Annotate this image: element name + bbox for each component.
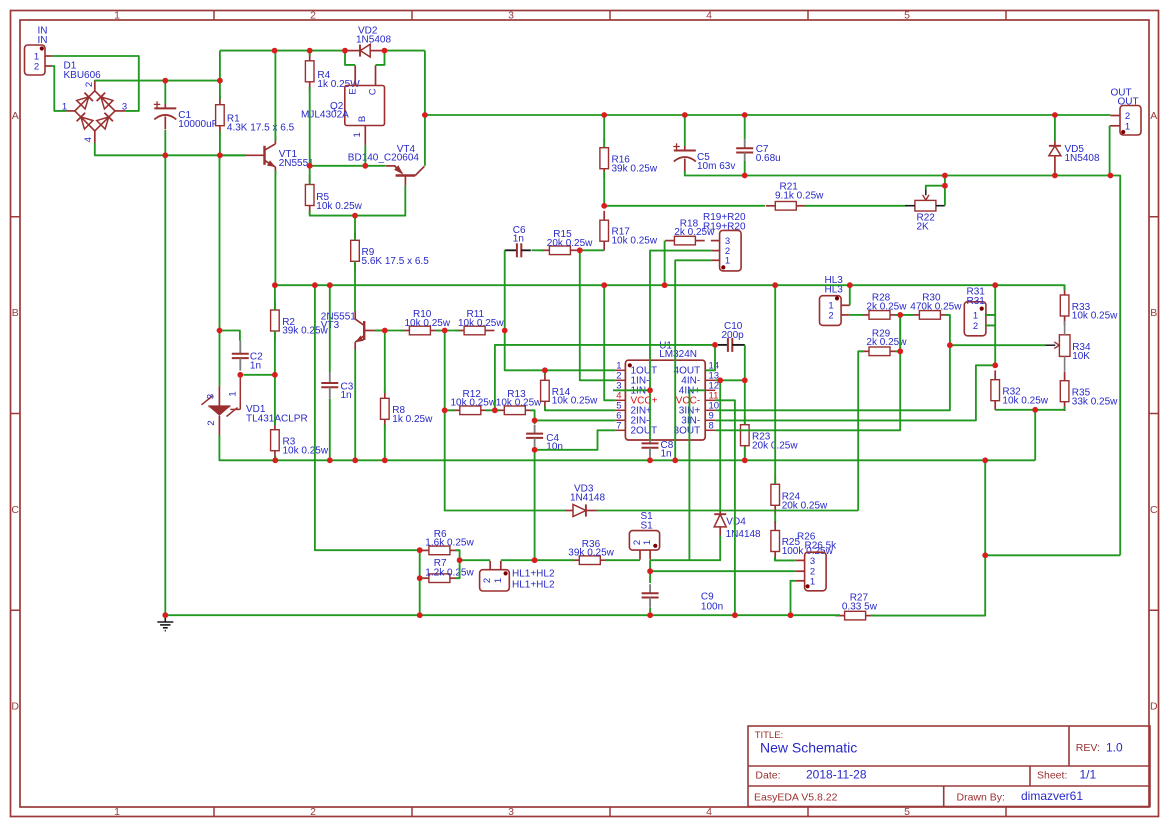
resistor R28 xyxy=(860,311,900,320)
svg-text:BD140_C20604: BD140_C20604 xyxy=(348,152,420,163)
wire xyxy=(445,331,455,411)
junction at 165.3,80.6 xyxy=(162,78,168,84)
svg-text:1k 0.25W: 1k 0.25W xyxy=(317,79,360,90)
wire xyxy=(664,241,666,286)
wire xyxy=(744,447,746,461)
wire xyxy=(460,559,491,561)
wire xyxy=(1064,285,1066,290)
wire xyxy=(858,351,864,510)
wire xyxy=(95,80,220,82)
junction at 329.8,285.2 xyxy=(327,282,333,288)
junction at 1054.9,115 xyxy=(1052,112,1058,118)
wire xyxy=(650,251,711,441)
svg-text:2: 2 xyxy=(84,82,95,87)
connector P2 OUT xyxy=(1110,106,1141,136)
resistor R10 xyxy=(400,326,440,335)
junction at 274.9,285.2 xyxy=(272,282,278,288)
wire xyxy=(895,350,900,352)
junction at 424.9,115 xyxy=(422,112,428,118)
diode D1c xyxy=(77,113,93,129)
svg-text:1.0: 1.0 xyxy=(1106,741,1123,755)
wire xyxy=(495,345,715,410)
junction at 309.7,165.8 xyxy=(307,163,313,169)
resistor R35 xyxy=(1060,371,1069,411)
svg-text:4.3K 17.5 x 6.5: 4.3K 17.5 x 6.5 xyxy=(227,123,295,134)
junction at 345,50.6 xyxy=(342,48,348,54)
junction at 219.5,330.5 xyxy=(217,328,223,334)
resistor R1 xyxy=(216,95,225,135)
junction at 604.2,285.2 xyxy=(601,282,607,288)
svg-text:10k 0.25w: 10k 0.25w xyxy=(316,201,362,212)
junction at 165.3,615.2 xyxy=(162,612,168,618)
svg-text:2: 2 xyxy=(34,62,39,73)
wire xyxy=(501,559,575,561)
junction at 274.9,374.8 xyxy=(272,372,278,378)
svg-text:2K: 2K xyxy=(917,222,930,233)
junction at 579.8,250.3 xyxy=(577,247,583,253)
svg-text:2: 2 xyxy=(482,578,493,583)
svg-text:B: B xyxy=(357,116,368,122)
wire xyxy=(1109,126,1111,176)
wire xyxy=(1110,176,1120,556)
diode D1b xyxy=(97,93,113,109)
svg-text:TL431ACLPR: TL431ACLPR xyxy=(246,413,308,424)
wire xyxy=(684,115,686,146)
wire xyxy=(1054,172,1056,176)
svg-text:R31: R31 xyxy=(967,296,986,307)
resistor R5 xyxy=(305,175,314,215)
wire xyxy=(705,345,715,370)
svg-text:Drawn By:: Drawn By: xyxy=(957,792,1005,804)
resistor R29 xyxy=(860,347,900,356)
bridge rectifier D1 xyxy=(66,81,125,144)
wire xyxy=(274,170,276,285)
wire xyxy=(244,374,275,376)
wire xyxy=(504,250,506,330)
junction at 419.7,550.2 xyxy=(417,547,423,553)
svg-text:HL1+HL2: HL1+HL2 xyxy=(512,569,555,580)
wire xyxy=(950,344,1046,346)
junction at 650,390.3 xyxy=(647,387,653,393)
resistor R32 xyxy=(991,370,1000,410)
junction at 664.6,285.2 xyxy=(662,282,668,288)
svg-text:10k 0.25w: 10k 0.25w xyxy=(612,235,658,246)
svg-text:D: D xyxy=(1150,700,1158,712)
resistor R4 xyxy=(305,52,314,92)
resistor R33 xyxy=(1060,286,1069,326)
capacitor C1 xyxy=(154,101,177,129)
wire xyxy=(534,450,536,560)
diode D1a xyxy=(77,93,93,109)
svg-text:0.68u: 0.68u xyxy=(756,153,781,164)
wire xyxy=(315,285,420,550)
wire xyxy=(220,154,246,156)
svg-text:5: 5 xyxy=(904,806,910,818)
junction at 314.9,285.2 xyxy=(312,282,318,288)
resistor R36 xyxy=(570,556,610,565)
wire xyxy=(744,345,746,380)
junction at 444.7,410.3 xyxy=(442,407,448,413)
svg-text:8: 8 xyxy=(709,421,714,432)
wire xyxy=(744,380,746,424)
U1 pin stubs right xyxy=(705,370,715,430)
svg-text:HL1+HL2: HL1+HL2 xyxy=(512,579,555,590)
junction at 949.9,345.2 xyxy=(947,342,953,348)
junction at 355,215.6 xyxy=(352,213,358,219)
wire xyxy=(164,155,166,615)
diode VD2 1N5408 xyxy=(345,44,385,57)
wire xyxy=(52,66,67,111)
resistor R23 xyxy=(741,415,750,455)
wire xyxy=(849,285,851,305)
svg-text:C: C xyxy=(11,504,19,516)
resistor R21 xyxy=(766,202,806,211)
svg-text:2: 2 xyxy=(310,10,316,22)
svg-text:R19+R20: R19+R20 xyxy=(703,221,746,232)
capacitor C7 xyxy=(736,139,753,162)
connector HL3 xyxy=(820,296,850,326)
svg-text:2OUT: 2OUT xyxy=(631,426,658,437)
svg-text:10k 0.25w: 10k 0.25w xyxy=(1072,311,1118,322)
svg-text:1: 1 xyxy=(725,256,730,267)
svg-text:1n: 1n xyxy=(513,234,524,245)
svg-text:10k 0.25w: 10k 0.25w xyxy=(496,398,542,409)
wire xyxy=(715,345,950,410)
junction at 650.1,571.2 xyxy=(647,568,653,574)
svg-text:1: 1 xyxy=(973,310,978,321)
svg-text:2: 2 xyxy=(310,806,316,818)
svg-text:10000uF: 10000uF xyxy=(178,119,217,130)
wire xyxy=(384,331,386,394)
wire xyxy=(309,51,311,56)
svg-text:10K: 10K xyxy=(1072,351,1090,362)
svg-text:9.1k 0.25w: 9.1k 0.25w xyxy=(775,190,824,201)
frame column labels bottom xyxy=(114,806,910,818)
resistor R2 xyxy=(271,301,280,341)
junction at 744.7,175.5 xyxy=(742,173,748,179)
svg-text:Sheet:: Sheet: xyxy=(1037,769,1067,781)
svg-text:39k 0.25w: 39k 0.25w xyxy=(612,163,658,174)
svg-text:4: 4 xyxy=(706,806,712,818)
resistor R17 xyxy=(600,211,609,251)
svg-text:5.6K 17.5 x 6.5: 5.6K 17.5 x 6.5 xyxy=(362,256,430,267)
wire xyxy=(603,115,605,147)
capacitor C2 xyxy=(232,340,249,370)
wire xyxy=(650,570,796,572)
svg-text:2018-11-28: 2018-11-28 xyxy=(806,768,867,782)
potentiometer R22 xyxy=(905,190,945,212)
wire xyxy=(364,145,366,165)
resistor R27 xyxy=(835,611,875,620)
wire xyxy=(329,285,331,372)
connector R31 xyxy=(964,302,995,336)
wire xyxy=(275,284,995,286)
wire xyxy=(165,614,840,616)
junction at 459.6,560.2 xyxy=(457,557,463,563)
svg-text:dimazver61: dimazver61 xyxy=(1021,789,1083,803)
junction at 985.2,460.3 xyxy=(982,457,988,463)
wire xyxy=(95,143,246,155)
frame row ticks left xyxy=(11,217,21,611)
junction at 419.7,578.2 xyxy=(417,575,423,581)
capacitor C9 xyxy=(642,584,659,607)
svg-text:3: 3 xyxy=(508,806,514,818)
svg-text:2: 2 xyxy=(206,420,217,425)
svg-text:Date:: Date: xyxy=(755,770,780,782)
svg-text:5: 5 xyxy=(904,10,910,22)
svg-text:20k 0.25w: 20k 0.25w xyxy=(547,238,593,249)
wire xyxy=(535,419,616,421)
junction at 944.9,175.5 xyxy=(942,173,948,179)
junction at 995.2,365.3 xyxy=(992,362,998,368)
svg-text:4: 4 xyxy=(83,137,94,142)
junction at 744.8,460.3 xyxy=(742,457,748,463)
wire xyxy=(164,130,166,155)
resistor R7 xyxy=(420,574,460,583)
wire xyxy=(354,262,356,312)
switch S1 xyxy=(629,531,659,560)
svg-text:4: 4 xyxy=(706,10,712,22)
U1 pin numbers right xyxy=(709,361,720,432)
svg-text:IN: IN xyxy=(38,35,48,46)
svg-text:1n: 1n xyxy=(661,449,672,460)
junction at 744.7,115 xyxy=(742,112,748,118)
wire xyxy=(275,459,1035,461)
resistor R16 xyxy=(600,138,609,178)
wire xyxy=(995,285,1064,290)
wire xyxy=(220,331,240,341)
svg-text:LM324N: LM324N xyxy=(659,349,697,360)
svg-text:10n: 10n xyxy=(546,442,563,453)
wire xyxy=(715,365,995,420)
op-amp U1 LM324N xyxy=(625,360,705,440)
resistor R3 xyxy=(271,420,280,460)
transistor VT3 xyxy=(355,311,383,350)
resistor R18 xyxy=(665,236,705,245)
capacitor C8 xyxy=(642,440,659,458)
wire xyxy=(899,315,901,351)
svg-text:1: 1 xyxy=(352,132,363,137)
wire xyxy=(436,330,460,332)
resistor R13 xyxy=(495,406,535,415)
junction at 534.6,560.2 xyxy=(532,557,538,563)
svg-text:3: 3 xyxy=(206,394,217,399)
diode VD5 1N5408 xyxy=(1049,141,1061,172)
svg-text:D: D xyxy=(11,700,19,712)
svg-text:B: B xyxy=(1150,307,1157,319)
wire xyxy=(946,315,950,345)
resistor R9 xyxy=(351,231,360,271)
junction at 384.8,330.5 xyxy=(382,328,388,334)
junction at 715,344.9 xyxy=(712,342,718,348)
capacitor C5 xyxy=(673,143,696,171)
svg-text:1N4148: 1N4148 xyxy=(726,529,761,540)
svg-text:0.33 5w: 0.33 5w xyxy=(842,602,878,613)
wire xyxy=(375,330,405,332)
wire xyxy=(219,81,221,100)
wire xyxy=(597,510,859,512)
resistor R14 xyxy=(541,371,550,411)
capacitor C4 xyxy=(526,425,543,447)
junction at 790.5,615.2 xyxy=(788,612,794,618)
capacitor C6 xyxy=(505,243,531,257)
wire xyxy=(384,425,386,461)
svg-text:1: 1 xyxy=(1125,121,1130,132)
svg-text:10k 0.25w: 10k 0.25w xyxy=(458,318,504,329)
svg-text:1n: 1n xyxy=(341,390,352,401)
junction at 650,460.3 xyxy=(647,457,653,463)
junction at 274.6,50.6 xyxy=(272,48,278,54)
svg-text:1: 1 xyxy=(810,576,815,587)
svg-text:100n: 100n xyxy=(701,602,723,613)
svg-text:B: B xyxy=(12,307,19,319)
frame column ticks top xyxy=(214,11,1006,21)
junction at 775.2,285.2 xyxy=(772,282,778,288)
wire xyxy=(345,51,355,65)
wire xyxy=(715,315,900,430)
junction at 240.3,374.8 xyxy=(237,372,243,378)
svg-text:7: 7 xyxy=(616,421,621,432)
junction at 309.7,50.6 xyxy=(307,48,313,54)
wire xyxy=(985,554,1120,556)
svg-text:A: A xyxy=(12,110,19,122)
wire xyxy=(329,399,331,461)
wire xyxy=(871,460,986,615)
junction at 734.9,615.2 xyxy=(732,612,738,618)
junction at 494.9,410.3 xyxy=(492,407,498,413)
junction at 219.9,80.6 xyxy=(217,78,223,84)
wire xyxy=(774,285,776,484)
svg-text:10k 0.25w: 10k 0.25w xyxy=(1002,395,1048,406)
wire xyxy=(791,581,796,615)
svg-text:1.6k 0.25w: 1.6k 0.25w xyxy=(425,538,474,549)
resistor R12 xyxy=(451,406,491,415)
wire xyxy=(689,390,705,560)
junction at 995.2,285.2 xyxy=(992,282,998,288)
transistor Q2 MJL4302A xyxy=(345,65,385,145)
connector P1 IN xyxy=(25,45,52,75)
U1 pin stubs left xyxy=(615,370,625,430)
U1 pin names right xyxy=(674,366,701,437)
svg-text:2k 0.25w: 2k 0.25w xyxy=(866,301,907,312)
junction at 1035.2,409.8 xyxy=(1032,407,1038,413)
svg-text:1/1: 1/1 xyxy=(1080,767,1097,781)
svg-text:1.2k 0.25w: 1.2k 0.25w xyxy=(425,567,474,578)
capacitor C10 xyxy=(718,338,745,352)
wire xyxy=(944,176,946,186)
svg-text:1: 1 xyxy=(228,391,239,396)
wire xyxy=(532,249,545,251)
svg-text:KBU606: KBU606 xyxy=(64,70,102,81)
junction at 444.7,330.5 xyxy=(442,328,448,334)
frame row ticks right xyxy=(1149,217,1159,611)
wire xyxy=(420,577,424,579)
svg-text:200p: 200p xyxy=(722,330,745,341)
wire xyxy=(986,285,995,315)
wire xyxy=(580,249,604,251)
junction at 534.6,449.8 xyxy=(532,447,538,453)
svg-text:2: 2 xyxy=(973,321,978,332)
junction at 900.2,314.9 xyxy=(897,312,903,318)
wire xyxy=(274,456,276,461)
svg-text:S1: S1 xyxy=(641,520,654,531)
svg-text:1: 1 xyxy=(114,806,120,818)
svg-text:OUT: OUT xyxy=(1118,97,1139,108)
wire xyxy=(944,186,946,206)
junction at 384.5,50.6 xyxy=(382,48,388,54)
wire xyxy=(685,171,1111,176)
junction at 720.2,380.3 xyxy=(717,377,723,383)
wire xyxy=(486,409,499,411)
svg-text:3: 3 xyxy=(508,10,514,22)
wire xyxy=(775,557,796,560)
U1 pin numbers left xyxy=(616,361,621,432)
svg-text:470k 0.25w: 470k 0.25w xyxy=(910,301,962,312)
resistor R8 xyxy=(381,389,390,429)
transistor VT4 BD140 PNP xyxy=(386,165,424,186)
wire xyxy=(544,370,546,374)
wire R24 R25 link xyxy=(774,513,776,524)
svg-text:1N4148: 1N4148 xyxy=(570,493,605,504)
title block xyxy=(748,726,1150,807)
junction at 1110.4,175.5 xyxy=(1108,173,1114,179)
svg-text:1N5408: 1N5408 xyxy=(356,34,391,45)
junction at 604.2,115 xyxy=(601,112,607,118)
wire xyxy=(534,448,536,450)
wire xyxy=(385,50,425,52)
junction at 1054.9,175.5 xyxy=(1052,173,1058,179)
junction at 849.8,285.2 xyxy=(847,282,853,288)
svg-text:1N5408: 1N5408 xyxy=(1065,153,1100,164)
svg-text:New Schematic: New Schematic xyxy=(760,740,857,756)
junction at 534.6,420.4 xyxy=(532,418,538,424)
wire xyxy=(605,559,640,561)
junction at 650.1,615.2 xyxy=(647,612,653,618)
wire xyxy=(1064,407,1066,410)
wire xyxy=(219,131,221,155)
shunt regulator VD1 TL431 xyxy=(202,378,241,436)
wire xyxy=(604,285,615,400)
svg-text:10k 0.25w: 10k 0.25w xyxy=(451,398,497,409)
wire xyxy=(310,186,406,216)
wire xyxy=(52,56,139,111)
diode VD4 1N4148 xyxy=(714,510,726,536)
wire xyxy=(675,260,711,460)
svg-text:1k 0.25w: 1k 0.25w xyxy=(392,414,433,425)
junction at 900.2,351.3 xyxy=(897,348,903,354)
wire xyxy=(274,331,276,425)
svg-text:33k 0.25w: 33k 0.25w xyxy=(1072,396,1118,407)
svg-text:10k 0.25w: 10k 0.25w xyxy=(552,396,598,407)
svg-text:10k 0.25w: 10k 0.25w xyxy=(283,445,329,456)
wire xyxy=(530,410,534,424)
resistor R15 xyxy=(540,246,580,255)
wire xyxy=(986,324,995,326)
svg-text:10m 63v: 10m 63v xyxy=(697,161,735,172)
svg-text:REV:: REV: xyxy=(1076,742,1100,754)
connector R26 xyxy=(796,552,826,591)
svg-text:3OUT: 3OUT xyxy=(674,426,701,437)
U1 pin names left xyxy=(631,366,658,437)
wire xyxy=(895,314,914,316)
diode D1d xyxy=(97,113,113,129)
capacitor C3 xyxy=(321,372,338,398)
wire xyxy=(805,205,906,207)
wire xyxy=(1054,115,1056,141)
wire xyxy=(455,550,460,578)
wire xyxy=(994,315,996,365)
wire xyxy=(164,81,166,104)
